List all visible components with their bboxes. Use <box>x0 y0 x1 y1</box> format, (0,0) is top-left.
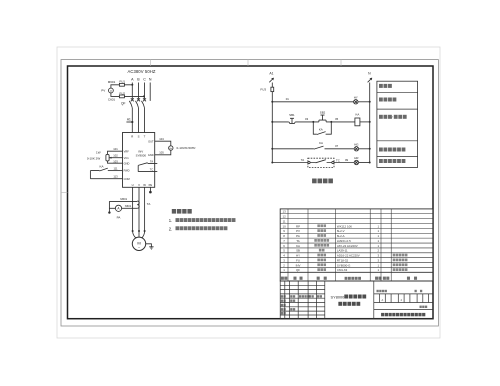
wire to COM vertical <box>89 171 91 179</box>
svg-text:JZX-22 AC220V: JZX-22 AC220V <box>337 244 358 248</box>
svg-text:01: 01 <box>286 97 290 101</box>
title 标记处数分区 row text <box>281 295 283 297</box>
svg-text:SB2: SB2 <box>320 111 326 115</box>
svg-text:OUT: OUT <box>148 139 154 143</box>
svg-text:1.: 1. <box>169 218 173 223</box>
company name 上海山宇电子设备有限公司 <box>381 313 384 316</box>
node row3 left <box>271 148 273 150</box>
svg-text:101: 101 <box>113 147 118 151</box>
node row2 left <box>271 121 273 123</box>
wire U down <box>132 187 134 231</box>
wire M601 voltmeter top lead <box>111 85 132 89</box>
node row3 right <box>369 148 371 150</box>
label 变频启/停按钮 <box>379 115 383 119</box>
svg-text:HY: HY <box>296 254 300 258</box>
wire V to motor <box>138 231 140 237</box>
fuse FU1 <box>119 83 124 86</box>
svg-text:FU3: FU3 <box>260 88 266 92</box>
node motor terminal W <box>144 230 146 232</box>
title 批准 row <box>281 312 283 314</box>
wire HG to N <box>359 148 370 150</box>
BOM header 型号及规格 <box>345 277 348 280</box>
wire 03 <box>295 121 319 123</box>
svg-text:TA: TA <box>147 202 151 206</box>
BOM header 名称 <box>317 277 320 280</box>
dashed terminal box TA-TC <box>308 158 334 167</box>
label 变频故障指示 <box>379 159 383 163</box>
svg-text:GND: GND <box>148 153 154 157</box>
wire W to motor <box>142 231 145 238</box>
svg-text:0-10V/0-50Hz: 0-10V/0-50Hz <box>177 146 197 150</box>
ground symbol <box>149 247 153 250</box>
svg-text:FU1: FU1 <box>119 80 125 84</box>
svg-text:C601: C601 <box>108 97 116 101</box>
node PE ground dot <box>149 191 152 194</box>
svg-text:103: 103 <box>113 159 118 163</box>
wire 111 <box>108 170 123 172</box>
wire row3 <box>272 148 314 150</box>
wire 102 with wiper arrow <box>109 157 122 159</box>
svg-text:COM: COM <box>124 177 130 181</box>
title 设计 row <box>281 300 283 302</box>
title block frame <box>280 281 433 319</box>
svg-text:AD16-22 AC220V: AD16-22 AC220V <box>337 254 360 258</box>
current transformer TA arcs <box>137 201 139 208</box>
wire A1 tap stub <box>126 121 132 123</box>
wire M601 ammeter top lead <box>109 200 137 202</box>
svg-text:WX112 10K: WX112 10K <box>337 224 352 228</box>
svg-text:KA: KA <box>296 244 300 248</box>
label 电源指示 <box>379 98 383 102</box>
svg-text:HY: HY <box>354 95 358 99</box>
svg-text:V: V <box>138 183 140 187</box>
svg-text:U: U <box>132 183 134 187</box>
function box column <box>377 81 418 167</box>
wire row4 <box>272 162 308 164</box>
svg-text:SB: SB <box>296 249 300 253</box>
wire phase B vertical <box>138 83 140 100</box>
svg-text:1W: 1W <box>96 151 101 155</box>
svg-text:TA: TA <box>150 159 153 163</box>
svg-text:T: T <box>144 134 146 138</box>
svg-text:TA: TA <box>301 158 305 162</box>
motor M <box>132 237 145 250</box>
wire A below QF to inverter R <box>131 108 133 133</box>
wire C below QF to inverter T <box>144 108 146 133</box>
potentiometer RP <box>106 154 109 161</box>
node A1 tap on phase A <box>131 121 133 123</box>
contact KA (FWD branch) <box>90 168 107 171</box>
svg-text:13: 13 <box>282 210 286 214</box>
wire motor ground lead <box>146 244 152 247</box>
svg-text:M601: M601 <box>120 197 127 201</box>
svg-text:SY8000: SY8000 <box>331 294 346 299</box>
svg-text:W: W <box>143 183 146 187</box>
svg-text:104: 104 <box>159 137 164 141</box>
wire 104 <box>155 141 171 146</box>
wire N601 ammeter bottom lead <box>122 207 138 209</box>
node SB2 right <box>330 121 332 123</box>
title 审核 row <box>281 304 283 306</box>
BOM column lines <box>287 209 289 281</box>
svg-text:PE: PE <box>149 183 153 187</box>
svg-text:V: V <box>110 89 112 93</box>
svg-text:102: 102 <box>113 154 118 158</box>
svg-text:HG: HG <box>354 142 359 146</box>
wire 105 <box>155 150 171 155</box>
wire PA left lead <box>109 201 115 211</box>
wire W down <box>144 187 146 231</box>
svg-text:AC380V 50HZ: AC380V 50HZ <box>127 69 155 74</box>
svg-text:QF: QF <box>296 268 300 272</box>
BOM header 数量 <box>375 277 378 280</box>
lamp HY <box>354 100 358 104</box>
node row4 right <box>369 162 371 164</box>
fuse FU2 <box>119 95 124 98</box>
wire HY to N <box>358 101 370 103</box>
svg-text:09: 09 <box>345 158 349 162</box>
caption 二次回路 <box>312 179 317 184</box>
wire row2 to SB1 <box>272 121 289 123</box>
svg-text:C: C <box>143 78 146 82</box>
BOM table frame <box>280 209 433 281</box>
svg-text:~: ~ <box>138 246 140 250</box>
breaker QF pole B <box>136 98 141 108</box>
svg-text:A: A <box>382 298 384 302</box>
label 熔断器 <box>379 84 383 88</box>
svg-text:SY8000: SY8000 <box>136 154 147 158</box>
svg-text:RP: RP <box>296 224 300 228</box>
lamp HG <box>354 147 358 151</box>
ammeter PA <box>115 205 121 211</box>
svg-text:N: N <box>149 78 152 82</box>
wire 05 <box>326 121 355 123</box>
node motor terminal U <box>132 230 134 232</box>
node: FU1 to phase A junction <box>131 84 133 86</box>
lamp HR <box>354 160 358 164</box>
svg-text:10: 10 <box>282 224 286 228</box>
svg-text:PA: PA <box>296 234 300 238</box>
svg-text:N601: N601 <box>125 204 132 208</box>
breaker QF pole C <box>142 98 147 108</box>
node motor terminal V <box>138 230 140 232</box>
svg-text:RT18-32: RT18-32 <box>337 258 349 262</box>
svg-text:Hz: Hz <box>170 148 173 150</box>
pushbutton SB2 (NO) <box>319 115 326 122</box>
svg-text:KA: KA <box>99 165 103 169</box>
svg-text:FU2: FU2 <box>119 91 125 95</box>
svg-text:GND: GND <box>124 161 130 165</box>
svg-text:105: 105 <box>159 151 164 155</box>
svg-text:S: S <box>138 134 140 138</box>
svg-text:PA: PA <box>117 216 121 220</box>
svg-text:PV: PV <box>101 89 105 93</box>
paper sheet <box>57 47 440 338</box>
inverter U1 SY8000 body <box>123 133 155 188</box>
wire 01 row <box>272 101 353 103</box>
node row1 right <box>369 101 371 103</box>
node SB2 left <box>312 121 314 123</box>
BOM row lines <box>280 213 433 215</box>
svg-text:HR: HR <box>354 156 358 160</box>
title 工艺 row <box>281 308 283 310</box>
breaker QF pole A <box>129 98 134 108</box>
svg-text:SY8000-G: SY8000-G <box>337 263 351 267</box>
svg-text:12: 12 <box>282 215 286 219</box>
svg-text:6L2-A: 6L2-A <box>337 234 345 238</box>
wire KA self-hold branch <box>313 122 331 134</box>
svg-text:KA: KA <box>319 128 323 132</box>
right zone 比例 <box>420 306 422 308</box>
svg-text:LA39-11: LA39-11 <box>337 249 348 253</box>
fuse FU3 <box>271 87 274 91</box>
svg-text:KA: KA <box>319 141 323 145</box>
svg-text:113: 113 <box>113 175 118 179</box>
svg-text:FU: FU <box>296 258 300 262</box>
pushbutton SB1 (NC) <box>289 118 295 123</box>
wire PE stub <box>149 187 151 191</box>
svg-text:6L2-V: 6L2-V <box>337 229 345 233</box>
contact TA-TC inside dashed box <box>310 160 332 163</box>
svg-text:111: 111 <box>113 167 118 171</box>
svg-text:LMZJ1-0.5: LMZJ1-0.5 <box>337 239 351 243</box>
frequency meter Hz <box>169 146 173 150</box>
svg-text:VC1: VC1 <box>124 156 130 160</box>
svg-text:VRF: VRF <box>124 149 130 153</box>
title block right zone grid <box>374 293 433 295</box>
svg-text:SB1: SB1 <box>289 113 295 117</box>
BOM header 单位 <box>383 277 386 280</box>
svg-text:TC: TC <box>150 168 154 172</box>
svg-text:FWD: FWD <box>124 169 130 173</box>
wire coil to N <box>360 121 370 123</box>
svg-text:M601: M601 <box>108 80 116 84</box>
wire 07 <box>325 148 355 150</box>
svg-text:11: 11 <box>283 219 286 223</box>
wire V down <box>138 187 140 231</box>
wire phase A vertical <box>131 83 133 100</box>
outer thin border <box>61 60 438 326</box>
BOM header 序号 <box>281 277 284 280</box>
wire 103 <box>108 161 123 163</box>
svg-text:TC: TC <box>336 158 340 162</box>
svg-text:07: 07 <box>335 144 339 148</box>
contact KA (row3) <box>314 146 324 149</box>
node row2 right <box>369 121 371 123</box>
right zone 共张第张 text <box>415 290 417 292</box>
bus A1 vertical <box>271 83 273 163</box>
svg-text:R: R <box>131 134 133 138</box>
wire phase C vertical <box>144 83 146 100</box>
right zone 阶段标记 text <box>377 290 379 292</box>
node row1 left <box>271 101 273 103</box>
contact KA (self-hold) <box>317 132 326 135</box>
wire phase N vertical <box>149 83 151 101</box>
svg-text:PV: PV <box>296 229 300 233</box>
wire 113 <box>90 178 122 180</box>
svg-text:05: 05 <box>335 117 339 121</box>
relay coil KA <box>355 118 360 126</box>
wire 101 <box>108 151 123 154</box>
node ground dot <box>108 211 110 213</box>
svg-text:0-10K 2W: 0-10K 2W <box>87 156 101 160</box>
node row4 left <box>271 162 273 164</box>
voltmeter PV <box>109 88 114 93</box>
terminal circle TC <box>332 161 334 163</box>
svg-text:2.: 2. <box>169 226 173 231</box>
BOM header 备注 <box>407 277 410 280</box>
inner thick border frame <box>68 66 434 319</box>
relay contact TA-TC inside inverter <box>138 163 157 172</box>
wire U to motor <box>133 231 137 238</box>
svg-text:TA: TA <box>296 239 300 243</box>
svg-text:CM1-63: CM1-63 <box>337 268 348 272</box>
svg-text:INV: INV <box>296 263 301 267</box>
node: FU2 to phase C junction <box>143 95 145 97</box>
notes 技术说明 <box>172 209 176 214</box>
svg-text:A1: A1 <box>127 117 131 121</box>
node N arrow <box>368 78 372 82</box>
title block left zone grid <box>280 284 325 286</box>
wire HR to N <box>359 162 370 164</box>
node A1 arrow <box>269 78 273 82</box>
svg-text:03: 03 <box>305 117 309 121</box>
centering tick marks top <box>61 60 341 193</box>
wire 09 <box>334 162 354 164</box>
bus N vertical <box>369 83 371 163</box>
svg-text:KA: KA <box>355 113 359 117</box>
wire B below QF to inverter S <box>138 108 140 133</box>
svg-text:QF: QF <box>121 102 125 106</box>
label 变频运行指示 <box>379 148 383 152</box>
wire C601 voltmeter bottom lead <box>111 93 144 97</box>
drawing title 调速控制图 <box>338 302 342 306</box>
svg-text:A1: A1 <box>269 72 273 76</box>
terminal circle TA <box>308 161 310 163</box>
BOM header 符号 <box>293 277 296 280</box>
